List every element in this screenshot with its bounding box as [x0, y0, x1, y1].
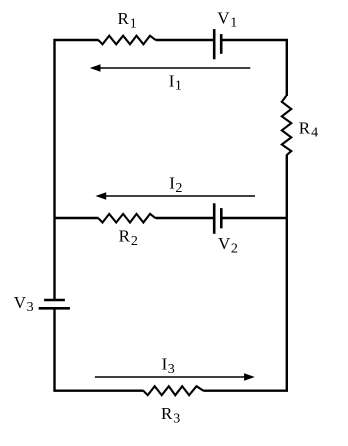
wire top-left corner segment: [55, 40, 99, 299]
resistor R4: [282, 96, 292, 156]
battery V3: [39, 300, 70, 308]
battery V2: [214, 203, 221, 234]
svg-text:I: I: [169, 71, 175, 90]
label V1: [217, 8, 237, 30]
arrow I1: [90, 64, 251, 71]
wire R1 to V1: [156, 39, 213, 41]
svg-text:I: I: [169, 174, 175, 193]
battery V1: [214, 29, 221, 59]
label V3: [14, 293, 34, 315]
resistor R2: [98, 214, 156, 223]
svg-text:R: R: [299, 118, 311, 137]
svg-text:1: 1: [130, 17, 137, 32]
svg-text:1: 1: [230, 16, 237, 31]
svg-text:V: V: [218, 234, 231, 253]
label R1: [118, 9, 137, 31]
label I2: [169, 174, 182, 196]
svg-text:3: 3: [27, 300, 34, 315]
label I1: [169, 71, 182, 93]
wire right lower segment: [203, 155, 286, 391]
wire V2 to right: [222, 217, 286, 219]
label R2: [119, 227, 138, 249]
wire V1 to top-right corner: [222, 40, 287, 96]
label I3: [162, 355, 175, 377]
svg-text:R: R: [161, 404, 173, 423]
svg-text:V: V: [217, 8, 230, 27]
svg-text:I: I: [162, 355, 168, 374]
svg-text:4: 4: [311, 126, 318, 141]
label V2: [218, 234, 238, 256]
svg-text:1: 1: [175, 79, 182, 94]
svg-text:R: R: [118, 9, 130, 28]
resistor R1: [98, 36, 156, 45]
wire left lower segment: [55, 309, 144, 390]
arrow I3: [95, 373, 255, 380]
wire middle-left segment: [55, 217, 99, 219]
arrow I2: [96, 192, 256, 199]
svg-text:R: R: [119, 227, 131, 246]
svg-text:2: 2: [131, 234, 138, 249]
resistor R3: [143, 386, 203, 395]
label R4: [299, 118, 318, 140]
label R3: [161, 404, 180, 426]
svg-text:2: 2: [231, 242, 238, 257]
wire R2 to V2: [156, 217, 213, 219]
svg-text:3: 3: [168, 362, 175, 377]
svg-text:2: 2: [175, 181, 182, 196]
svg-text:V: V: [14, 293, 27, 312]
svg-text:3: 3: [173, 411, 180, 426]
